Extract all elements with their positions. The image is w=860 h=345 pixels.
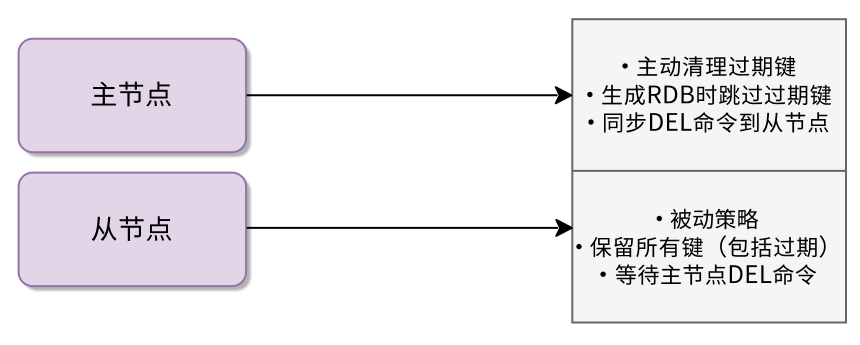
text: · 被动策略 bbox=[657, 209, 759, 229]
node box 从节点 bbox=[19, 173, 247, 287]
text: 从节点 bbox=[92, 216, 171, 241]
text: · 主动清理过期键 bbox=[622, 56, 795, 76]
shadow of node box 主节点 bbox=[23, 43, 251, 157]
shadow of node box 从节点 bbox=[23, 177, 251, 291]
divider line between panel cells bbox=[572, 170, 846, 172]
right panel rectangle bbox=[572, 19, 846, 322]
arrow from 从节点 to panel bbox=[247, 220, 572, 236]
arrow from 主节点 to panel bbox=[247, 87, 572, 103]
text: · 同步DEL命令到从节点 bbox=[588, 112, 828, 133]
text: 主节点 bbox=[92, 82, 171, 107]
text: · 等待主节点DEL命令 bbox=[600, 264, 816, 285]
text: · 生成RDB时跳过过期键 bbox=[587, 85, 831, 105]
text: · 保留所有键（包括过期） bbox=[576, 235, 825, 257]
node box 主节点 bbox=[19, 39, 247, 153]
